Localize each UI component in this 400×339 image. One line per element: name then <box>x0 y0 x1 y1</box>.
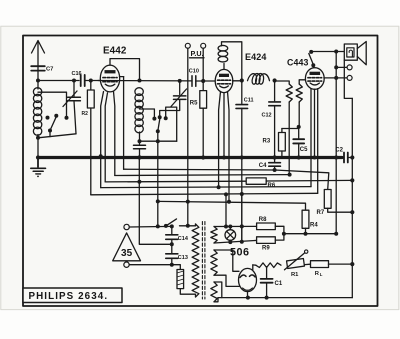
transformer sec W2 <box>211 250 217 275</box>
trimmer C8 <box>63 79 80 134</box>
label 506 <box>230 247 250 259</box>
svg-text:PHILIPS 2634.: PHILIPS 2634. <box>29 291 109 302</box>
node bus-left <box>36 155 40 159</box>
valve U3 C443 <box>305 68 324 90</box>
switch S3 anode <box>309 50 316 68</box>
antenna <box>32 41 45 81</box>
wire S6 <box>156 199 306 210</box>
wire centre-tap <box>139 158 174 247</box>
wire ant-node <box>36 79 79 83</box>
wave switch S2 <box>138 107 177 143</box>
svg-text:P.U.: P.U. <box>191 49 204 58</box>
svg-text:R1: R1 <box>291 272 299 278</box>
capacitor C16 <box>72 71 85 86</box>
resistor R7 <box>317 190 355 217</box>
capacitor C13 <box>166 254 188 267</box>
voltage adaptor 35 <box>113 233 141 261</box>
terminal mains2 <box>124 262 129 267</box>
wire S1 <box>124 77 329 190</box>
valve U1 E442 <box>100 65 123 92</box>
transformer primary <box>192 224 199 297</box>
wire L2 tap <box>140 109 155 119</box>
wire R8R9 tap <box>284 232 338 236</box>
terminal PU2 <box>201 43 206 48</box>
capacitor C14 <box>166 226 189 253</box>
transformer core <box>202 222 205 300</box>
wire S4 <box>101 185 311 189</box>
resistor RL <box>305 261 355 278</box>
resistor R4 <box>302 210 318 236</box>
svg-text:C7: C7 <box>46 67 53 73</box>
valve U1 legs <box>99 92 115 188</box>
speaker <box>344 42 366 99</box>
ground <box>31 158 46 178</box>
svg-text:C13: C13 <box>178 255 188 261</box>
capacitor C2 <box>335 148 354 163</box>
potentiometer R1 <box>287 259 305 278</box>
svg-text:506: 506 <box>230 247 250 259</box>
svg-text:35: 35 <box>121 248 133 259</box>
transformer sec W3 <box>211 282 217 302</box>
capacitor C5 <box>293 127 308 160</box>
coil L1 <box>33 81 41 158</box>
capacitor C1 <box>261 267 283 298</box>
wire W2 lead2 <box>214 275 239 286</box>
transformer sec W1 <box>211 227 217 244</box>
svg-text:R5: R5 <box>190 101 198 107</box>
resistor R2 <box>82 81 95 195</box>
resistor mains dropper <box>177 270 196 297</box>
trimmer C9 <box>160 79 187 117</box>
border frame <box>23 36 378 307</box>
wire C16-grid <box>85 79 101 83</box>
wire bottom rail <box>218 296 352 300</box>
resistor R1 series zigzag <box>253 263 281 268</box>
resistor R9 <box>257 237 276 252</box>
mains switch S4 <box>164 219 196 228</box>
svg-text:R2: R2 <box>82 111 89 117</box>
label E442 <box>103 46 127 57</box>
resistor R8 <box>257 217 276 229</box>
resistor R3 <box>263 125 301 158</box>
winding T1b <box>296 80 306 127</box>
terminal SPK2 <box>324 75 352 80</box>
coil L2 <box>135 88 143 144</box>
winding T1a <box>275 81 293 175</box>
capacitor C10 <box>189 69 199 87</box>
svg-text:R3: R3 <box>263 139 271 145</box>
wire S5-drop2 <box>240 194 244 244</box>
svg-text:R9: R9 <box>262 246 270 252</box>
label P.U. <box>190 49 205 58</box>
capacitor C-pad <box>134 145 146 160</box>
wire W3 leads <box>214 282 222 302</box>
wire U1 anode top <box>110 59 142 83</box>
wire mid y80 <box>98 79 216 83</box>
svg-text:C11: C11 <box>244 98 254 104</box>
svg-text:C10: C10 <box>189 69 199 75</box>
wire mains bottom <box>129 265 180 270</box>
node B <box>273 78 277 82</box>
valve U2 detector <box>215 69 233 92</box>
svg-text:E442: E442 <box>103 46 127 57</box>
wire HT rail right <box>351 98 353 297</box>
svg-text:C5: C5 <box>300 147 308 153</box>
terminal PU1 <box>185 43 190 48</box>
wire radio-gramo column <box>157 141 159 226</box>
label E424 <box>245 52 266 62</box>
svg-text:R4: R4 <box>310 222 318 228</box>
chassis bus wire <box>38 156 342 159</box>
wire L1 tap <box>38 92 67 118</box>
wire S5-drop1 <box>224 194 228 228</box>
terminal SPK1 <box>336 65 352 70</box>
wire heater rail1 <box>214 225 257 227</box>
lamp <box>225 225 236 245</box>
wire mains top <box>129 224 174 228</box>
wire S2 <box>115 173 292 177</box>
wire R8R9 join <box>275 226 286 240</box>
wire S5 <box>91 192 318 196</box>
wire heater rail2 <box>214 240 257 243</box>
svg-text:C2: C2 <box>335 148 343 154</box>
wire S3b <box>266 178 354 182</box>
valve U3 legs <box>311 89 318 194</box>
wire PU1 column <box>186 48 190 228</box>
svg-text:C12: C12 <box>262 113 272 119</box>
title box <box>23 288 122 303</box>
wire 506 anode <box>252 265 254 270</box>
wire 506 cathode <box>247 292 249 298</box>
svg-text:C1: C1 <box>275 281 283 287</box>
svg-text:R7: R7 <box>317 210 325 216</box>
svg-text:C443: C443 <box>287 57 308 67</box>
svg-text:R8: R8 <box>259 217 267 223</box>
choke L4 <box>248 74 270 85</box>
terminal mains1 <box>124 224 129 229</box>
resistor R6 <box>246 178 276 189</box>
capacitor C4 <box>259 158 281 173</box>
coil L3 anode <box>218 42 242 81</box>
svg-text:L: L <box>320 272 323 277</box>
label C443 <box>287 57 308 67</box>
svg-text:E424: E424 <box>245 52 266 62</box>
svg-text:C4: C4 <box>259 163 267 169</box>
svg-text:C16: C16 <box>72 71 82 77</box>
wave switch S1 <box>36 114 76 140</box>
capacitor C7 <box>31 66 53 72</box>
node A <box>233 78 244 82</box>
wire speaker column <box>334 50 338 234</box>
wire W2 lead1 <box>214 250 239 271</box>
wire anode-speaker <box>311 51 344 53</box>
svg-text:C14: C14 <box>178 236 189 242</box>
wiper arrow R1 <box>285 250 308 270</box>
valve U2 legs <box>219 92 229 202</box>
wire S3a <box>105 180 246 184</box>
wire PU2 lead <box>202 48 204 81</box>
resistor R5 <box>190 81 207 160</box>
capacitor C11 <box>236 81 254 242</box>
capacitor C12 <box>262 81 281 160</box>
valve 506 <box>239 268 257 291</box>
